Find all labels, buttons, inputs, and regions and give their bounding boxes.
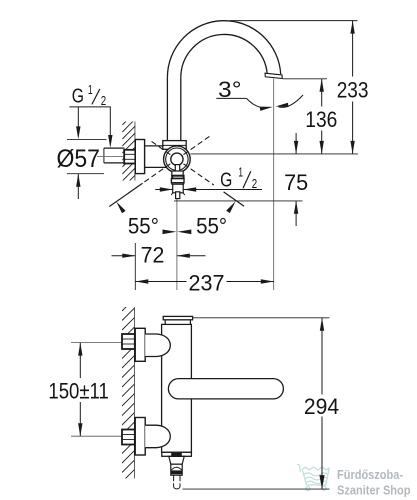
svg-text:G: G <box>72 86 84 108</box>
dimension D57 <box>56 107 106 199</box>
svg-text:75: 75 <box>284 170 308 195</box>
top mounting: nut, escutcheon, S-union <box>71 328 170 361</box>
watermark shop name <box>337 468 411 497</box>
svg-text:150±11: 150±11 <box>48 379 108 404</box>
spout base cap (front view) <box>163 316 192 324</box>
valve body circles <box>164 146 191 173</box>
G 1/2 label right <box>155 165 262 191</box>
svg-text:Ø57: Ø57 <box>56 145 100 173</box>
lever swing dashed line lower left <box>109 164 170 207</box>
svg-text:55°: 55° <box>196 213 227 238</box>
wall union nut (top view) <box>124 150 135 164</box>
dimension 233 <box>230 21 369 154</box>
55 degree labels and arrows <box>116 201 235 238</box>
handle lever <box>168 379 283 399</box>
supply pipe stub G1/2 <box>104 148 125 163</box>
lever stem and outlet stack <box>171 165 185 199</box>
bottom mounting: nut, escutcheon, S-union <box>71 418 170 456</box>
spout tube collar <box>163 141 186 150</box>
svg-text:1: 1 <box>238 165 243 179</box>
pipe centerline <box>97 156 128 158</box>
watermark shop basket icon <box>298 464 330 490</box>
svg-text:233: 233 <box>337 78 369 103</box>
dimension 72 <box>112 243 206 268</box>
body bottom cap and aerator <box>162 452 192 475</box>
dimension 136 <box>283 79 337 154</box>
water stream centerline <box>273 79 275 290</box>
water stream dashes (front view) <box>174 475 180 489</box>
connector pipe flange to valve <box>145 146 167 168</box>
G 1/2 label top left <box>69 83 112 148</box>
spout arc <box>167 21 280 78</box>
outlet level extension line <box>174 200 303 202</box>
dimension 75 <box>284 133 308 226</box>
svg-text:55°: 55° <box>128 213 159 238</box>
dimension 150 +/- 11 <box>48 343 108 437</box>
svg-text:Fürdőszoba-: Fürdőszoba- <box>337 468 403 482</box>
svg-text:2: 2 <box>252 177 257 191</box>
svg-text:294: 294 <box>304 394 339 419</box>
escutcheon flange D57 (top view) <box>135 140 144 174</box>
spout tube vertical section <box>167 77 180 140</box>
body (front view) <box>162 324 192 452</box>
svg-text:Szaniter Shop: Szaniter Shop <box>337 484 411 498</box>
svg-text:1: 1 <box>88 83 93 97</box>
lever swing dashed line lower right <box>184 164 245 206</box>
lever swing dashed line upper left <box>152 141 171 154</box>
svg-text:72: 72 <box>141 243 165 268</box>
svg-text:237: 237 <box>189 271 225 296</box>
valve vertical centerline <box>176 199 178 290</box>
dimension 237 <box>135 243 273 296</box>
lever swing dashed line upper right <box>184 135 212 155</box>
svg-text:136: 136 <box>305 107 337 132</box>
dimension 294 <box>183 318 340 489</box>
lever ball <box>171 153 183 165</box>
reference line pipe level <box>191 153 359 155</box>
3 degree label and arcs <box>216 77 303 111</box>
spout tip aerator <box>265 73 282 78</box>
svg-text:2: 2 <box>101 94 106 108</box>
svg-text:G: G <box>220 169 232 191</box>
